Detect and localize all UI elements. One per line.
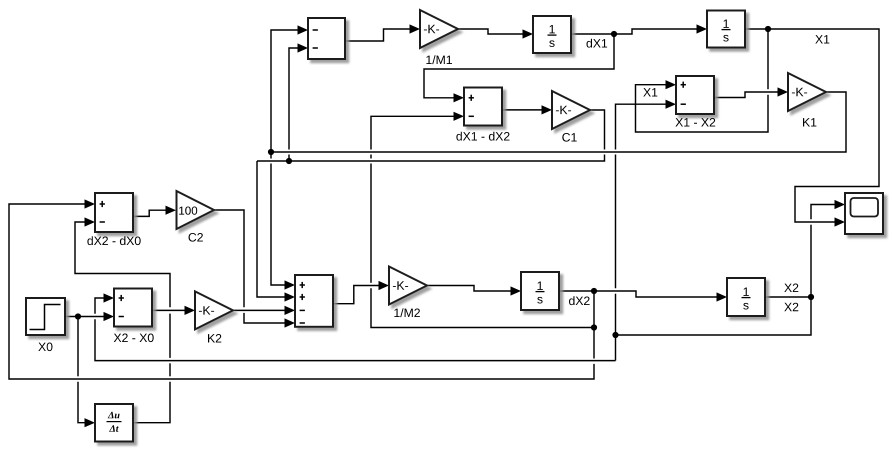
wire: X0 down to derivative (upper part) bbox=[77, 317, 79, 377]
wire: X0 down into derivative input bbox=[78, 382, 86, 423]
sum block dX1 - dX2 bbox=[464, 88, 502, 126]
arrowhead: Sum6 input 4 (-) bbox=[285, 318, 296, 327]
wire: riser x=271 down to Sum6 first + input bbox=[271, 164, 286, 286]
arrowhead: input of integrator (dX2) bbox=[511, 286, 522, 295]
wire: gain 1/M1 output to integrator (dX1) bbox=[458, 29, 524, 34]
arrowhead: input of gain 1/M1 bbox=[410, 24, 421, 33]
step source block X0 bbox=[26, 298, 65, 335]
wire: gain 1/M2 output to integrator (dX2) bbox=[427, 286, 512, 292]
scope block bbox=[845, 193, 883, 234]
arrowhead: input of derivative bbox=[85, 418, 96, 427]
wire: X2 up into scope input 1 bbox=[811, 205, 836, 220]
arrowhead: input of gain 1/M2 bbox=[379, 281, 390, 290]
sum block Sum6 (forces on M2) bbox=[295, 275, 333, 327]
integrator block 1/s (position X2) bbox=[727, 278, 765, 316]
label: signal dX1 bbox=[587, 39, 608, 48]
wire: derivative output right bbox=[133, 382, 170, 423]
arrowhead: Sum1 input 2 bbox=[298, 43, 309, 52]
arrowhead: Sum6 input 1 (+) bbox=[285, 280, 296, 289]
wire: C1 feedback down to Sum6 second + input bbox=[257, 161, 286, 297]
wire: riser x=271 up to Sum1 first - input bbox=[271, 30, 299, 159]
junction: X2 feedback node bbox=[612, 332, 618, 338]
arrowhead: input of gain K2 bbox=[185, 306, 196, 315]
sum block X2 - X0 bbox=[114, 289, 152, 327]
sum block X1 - X2 bbox=[676, 76, 714, 114]
arrowhead: Sum6 input 3 (-) bbox=[285, 306, 296, 315]
wire: X1 feedback down to sum X1-X2 (+) part2 bbox=[636, 85, 769, 132]
wire: dX1 feedback down to sum dX1-dX2 (+) bbox=[424, 34, 614, 98]
wire: dX0 riser x=170 part4, left and up to sum dX2-dX0 (-) bbox=[75, 222, 170, 307]
arrowhead: input of gain C1 bbox=[542, 105, 553, 114]
label: signal X1 at sum input bbox=[643, 88, 657, 96]
wire: X0 output to sum X2-X0 (-) bbox=[65, 316, 105, 318]
label: signal X1 (top right) bbox=[815, 35, 829, 43]
wire: gain C1 output down (below K1 line crossing) bbox=[257, 155, 605, 162]
wire: X2 riser x=615.5 up part3 into sum X1-X2 (-) bbox=[616, 104, 667, 149]
junction: node dX1 bbox=[611, 31, 617, 37]
wire: dX2 riser x=371 part4 into sum dX1-dX2 (-) bbox=[371, 116, 455, 149]
wire: X2 down from feedback node to X2-X0 line bbox=[615, 335, 617, 361]
wire: dX2 down to lower junction bbox=[593, 291, 595, 359]
label: signal X2 below wire bbox=[784, 303, 798, 312]
wire: dX0 riser x=170 part2 bbox=[169, 363, 171, 376]
arrowhead: - input of sum dX1-dX2 bbox=[454, 112, 465, 121]
gain block C1 bbox=[552, 91, 590, 129]
wire: dX2 down to bottom feedback line bbox=[9, 204, 594, 379]
wire: gain C2 output right and down (upper part) bbox=[214, 210, 244, 307]
arrowhead: - input of sum X2-X0 bbox=[104, 312, 115, 321]
label: gain name 1/M2 bbox=[394, 308, 420, 317]
arrowhead: scope input 1 (X2) bbox=[835, 200, 846, 209]
arrowhead: scope input 2 (X1) bbox=[835, 217, 846, 226]
sum block Sum1 (forces on M1) bbox=[308, 18, 345, 59]
wire: integrator output X2 to node bbox=[765, 296, 811, 298]
wire: integrator output dX2 to integrator (X2) bbox=[559, 291, 718, 297]
wire: riser x=289 stub below K1 crossing bbox=[288, 155, 290, 162]
junction: node X1 bbox=[765, 26, 771, 32]
wire: gain C2 output down to Sum6 fourth - input bbox=[244, 313, 286, 323]
wire: dX2 riser x=371 part3 bbox=[370, 155, 372, 159]
label: gain name K1 bbox=[803, 118, 816, 126]
wire: dX2 feedback left and up to sum dX1-dX2 (-) part1 bbox=[371, 288, 594, 327]
sum block dX2 - dX0 bbox=[95, 193, 133, 232]
label: gain name C1 bbox=[562, 133, 576, 142]
gain block K2 bbox=[195, 291, 233, 329]
wire: sum X1-X2 output to gain K1 bbox=[714, 92, 779, 98]
arrowhead: input of gain C2 bbox=[166, 206, 177, 215]
label: gain name K2 bbox=[208, 334, 221, 343]
label: sum name X2 - X0 bbox=[114, 334, 154, 343]
wire: X2 riser x=615.5 up part1 bbox=[615, 294, 617, 335]
derivative block du/dt bbox=[95, 404, 133, 442]
arrowhead: input of integrator (dX1) bbox=[523, 29, 534, 38]
junction: node dX2 bbox=[591, 288, 597, 294]
gain block C2 (value 100) bbox=[177, 191, 215, 229]
gain block 1/M2 bbox=[389, 267, 427, 305]
label: sum name dX2 - dX0 bbox=[87, 236, 140, 245]
wire: X2 up to scope (lower part) bbox=[810, 225, 812, 297]
wire: dX2 riser x=371 part2 bbox=[370, 164, 372, 283]
arrowhead: - input of sum X1-X2 bbox=[666, 100, 677, 109]
integrator block 1/s (velocity dX1) bbox=[533, 16, 571, 53]
label: gain name 1/M1 bbox=[426, 55, 452, 64]
junction: C1 feedback / riser x=289 node bbox=[286, 158, 292, 164]
arrowhead: Sum6 input 2 (+) bbox=[285, 292, 296, 301]
wire: Sum1 output to gain 1/M1 bbox=[346, 29, 411, 41]
wire: X2 feedback up into sum X2-X0 (+) bbox=[95, 298, 105, 314]
gain block K1 bbox=[788, 73, 826, 111]
arrowhead: + input of sum X1-X2 bbox=[666, 80, 677, 89]
wire: sum dX1-dX2 output to gain C1 bbox=[502, 109, 543, 111]
label: source name X0 bbox=[38, 343, 52, 352]
wire: sum dX2-dX0 output to gain C2 bbox=[133, 210, 167, 216]
wire: dX0 riser x=170 part3 bbox=[169, 314, 171, 358]
arrowhead: input of integrator (X2) bbox=[717, 292, 728, 301]
wire: sum X2-X0 output to gain K2 bbox=[152, 309, 186, 311]
label: signal dX2 bbox=[569, 296, 590, 305]
arrowhead: - input of sum dX2-dX0 bbox=[85, 217, 96, 226]
label: signal X2 above wire bbox=[784, 284, 798, 293]
arrowhead: + input of sum X2-X0 bbox=[104, 293, 115, 302]
junction: node X2 bbox=[808, 294, 814, 300]
arrowhead: input of integrator (X1) bbox=[697, 24, 708, 33]
arrowhead: + input of sum dX2-dX0 bbox=[85, 199, 96, 208]
junction: dX2 lower node bbox=[591, 324, 597, 330]
wire: X1 to top-right corner and down to scope bbox=[745, 29, 879, 222]
wire: X2 riser x=615.5 up part2 bbox=[615, 155, 617, 289]
wire: gain C1 output right then down bbox=[590, 110, 605, 150]
wire: gain K1 output feedback (down and left) bbox=[271, 92, 846, 152]
wire: gain K2 output to Sum6 third - input bbox=[233, 309, 286, 311]
gain block 1/M1 bbox=[420, 10, 458, 48]
junction: node X0 bbox=[75, 313, 81, 319]
label: sum name X1 - X2 bbox=[675, 118, 715, 127]
arrowhead: Sum1 input 1 bbox=[298, 25, 309, 34]
wire: riser x=289 up to Sum1 second - input bbox=[289, 48, 299, 150]
wire: X1 feedback down to sum X1-X2 (+) part1 bbox=[767, 29, 769, 89]
label: sum name dX1 - dX2 bbox=[456, 132, 509, 141]
junction: K1 feedback / vertical riser node bbox=[268, 149, 274, 155]
label: gain name C2 bbox=[189, 233, 203, 242]
wire: Sum6 output to gain 1/M2 bbox=[333, 286, 380, 304]
arrowhead: input of gain K1 bbox=[778, 87, 789, 96]
arrowhead: + input of sum dX1-dX2 bbox=[454, 93, 465, 102]
integrator block 1/s (velocity dX2) bbox=[521, 272, 559, 310]
wire: X2 feedback line to sum X2-X0 (+), lower run bbox=[95, 319, 616, 360]
integrator block 1/s (position X1) bbox=[707, 11, 745, 48]
wire: X2 down and left along y=335 bbox=[616, 297, 812, 335]
wire: integrator output dX1 to integrator (X1) bbox=[571, 29, 698, 34]
